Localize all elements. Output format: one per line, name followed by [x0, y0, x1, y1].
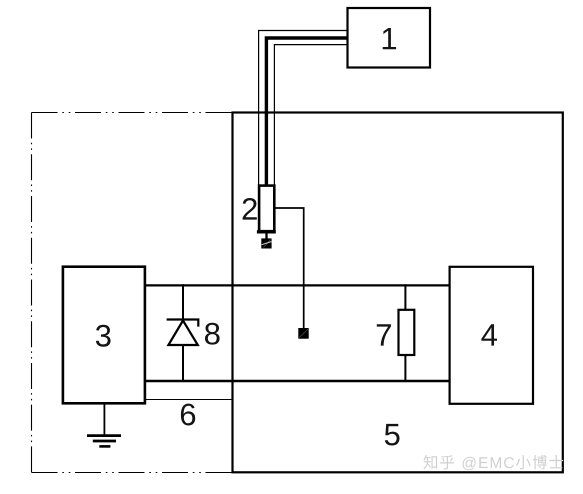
- label 6: [181, 404, 195, 426]
- ground bar 1: [87, 434, 121, 437]
- box 3 (DUT supply / battery): [63, 267, 145, 404]
- probe 2 tip pad (filled): [261, 238, 271, 248]
- box 4 (DUT / load): [450, 267, 533, 404]
- wire coax outer-left (box1 to probe): [259, 31, 347, 186]
- label 7: [377, 324, 391, 345]
- label 4: [481, 324, 497, 345]
- wire coax inner-right: [274, 45, 346, 185]
- wire bottom bus (box3 to box4): [146, 380, 450, 382]
- dashed boundary (chain line) top: [32, 112, 232, 114]
- diode D8 bottom wire: [182, 345, 184, 382]
- label 3: [96, 325, 111, 347]
- resistor R7 body: [399, 310, 415, 355]
- label 5: [385, 424, 400, 446]
- ground bar 3: [99, 445, 110, 448]
- diode D8 triangle: [168, 321, 197, 346]
- label 1: [383, 28, 396, 49]
- wire 6 (ground strap box3 to box5): [146, 399, 233, 401]
- wire top bus (box3 to box4): [146, 284, 450, 286]
- dashed boundary bottom: [32, 472, 232, 474]
- probe 2 bottom cap: [257, 230, 276, 233]
- wire coax center conductor (thick): [266, 38, 346, 186]
- injection point pad (filled square): [298, 328, 308, 339]
- resistor R7 wire: [404, 284, 406, 382]
- ground stem: [103, 404, 105, 435]
- diode D8 top wire: [182, 284, 184, 319]
- label 2: [243, 198, 257, 220]
- probe 2 body: [259, 186, 274, 232]
- ground bar 2: [93, 440, 116, 443]
- label 8: [205, 323, 220, 345]
- watermark: [424, 455, 564, 470]
- probe 2 stem: [265, 233, 267, 239]
- wire probe to injection point: [276, 208, 304, 328]
- box 5 (shielded room / ground plane enclosure): [233, 113, 563, 473]
- box U1 (pulse generator, box 1): [348, 8, 431, 68]
- diode D8 cathode bar (zener): [167, 320, 199, 327]
- dashed boundary left: [31, 113, 33, 473]
